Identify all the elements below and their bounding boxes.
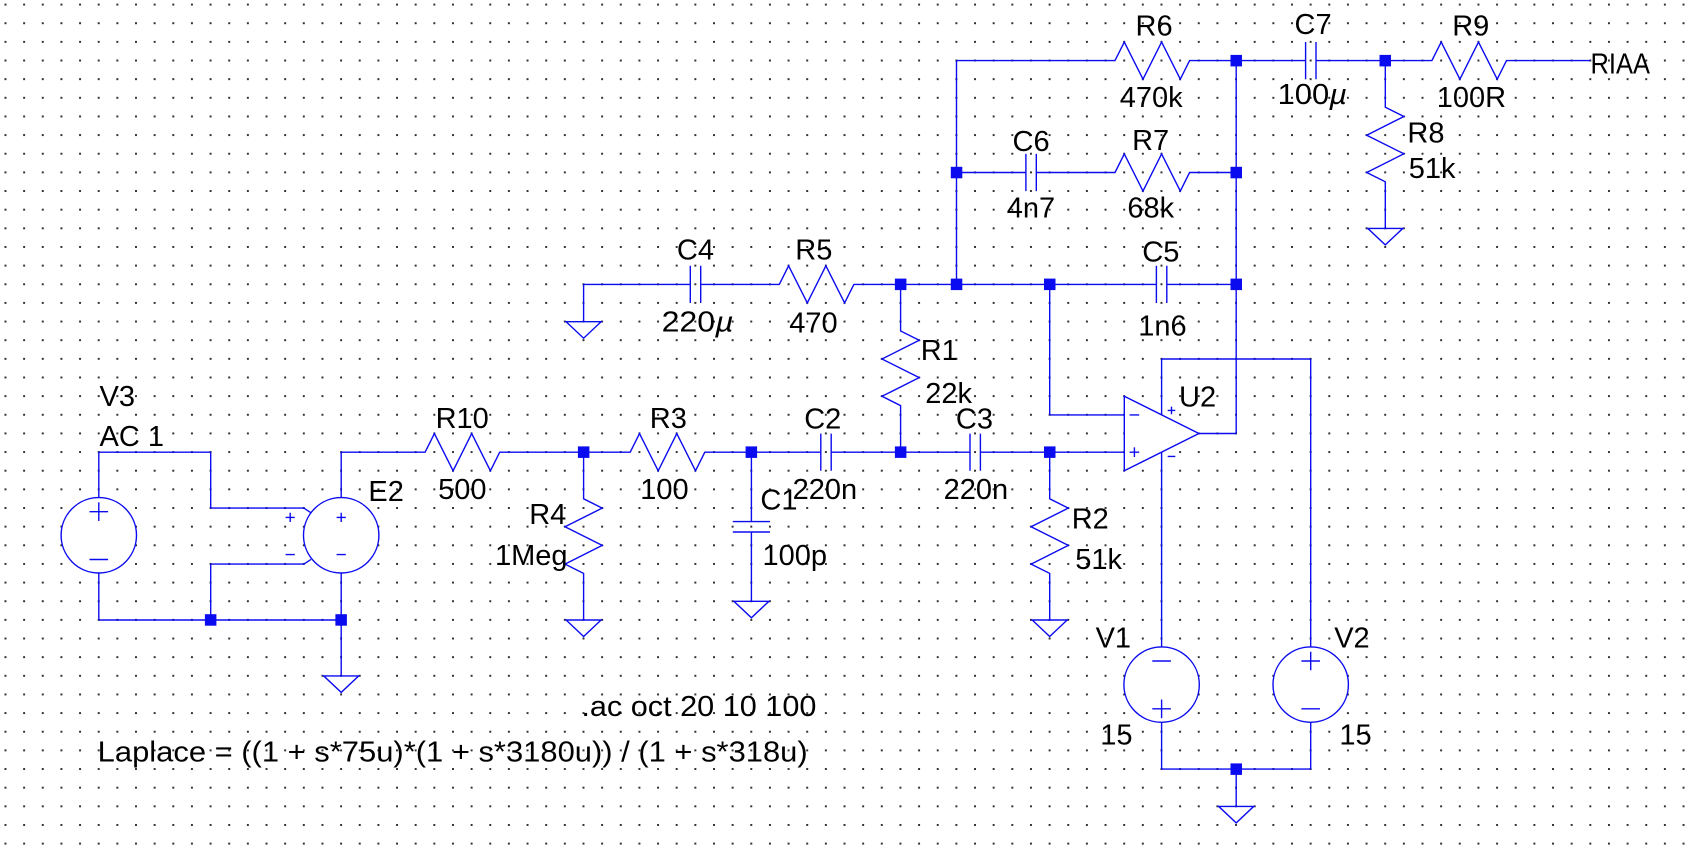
- wire C4 to R5: [733, 283, 770, 285]
- wire gnd corner to C4: [584, 283, 659, 285]
- svg-text:15: 15: [1100, 720, 1132, 752]
- resistor R7: [1106, 154, 1199, 191]
- svg-text:220µ: 220µ: [662, 307, 734, 339]
- svg-text:470k: 470k: [1120, 82, 1183, 114]
- resistor R9: [1423, 42, 1516, 79]
- wire C4 row ground stem: [583, 284, 585, 321]
- wire V+ rail horizontal: [1162, 358, 1311, 360]
- wire minus branch to opamp: [1050, 414, 1125, 416]
- wire V3 bottom: [98, 573, 100, 620]
- wire supply bottom row: [1162, 768, 1311, 770]
- ground R4: [566, 620, 601, 637]
- svg-text:E2: E2: [368, 476, 403, 508]
- svg-text:220n: 220n: [944, 474, 1009, 506]
- wire R6 to feedback node: [1199, 60, 1236, 62]
- capacitor C6: [994, 154, 1069, 191]
- svg-text:R2: R2: [1072, 503, 1109, 535]
- wire node to opamp plus input: [1050, 451, 1125, 453]
- junction left vertical bottom: [951, 279, 963, 291]
- svg-text:500: 500: [438, 474, 486, 506]
- wire V1 bottom: [1161, 722, 1163, 769]
- junction C1 top: [746, 446, 758, 458]
- wire opamp output: [1199, 433, 1236, 435]
- wire E2 to R10: [341, 451, 416, 453]
- svg-text:R7: R7: [1132, 125, 1169, 157]
- wire E2 top: [340, 452, 342, 498]
- wire V+ rail down to V2: [1310, 359, 1312, 647]
- svg-text:RIAA: RIAA: [1591, 48, 1651, 80]
- resistor R5: [770, 266, 863, 303]
- svg-text:R4: R4: [529, 499, 566, 531]
- resistor R3: [621, 434, 714, 471]
- wire R1 bottom lead: [900, 415, 902, 452]
- junction E2 bottom node: [335, 614, 347, 626]
- wire node to C5: [1050, 283, 1125, 285]
- junction bottom-left node: [205, 614, 217, 626]
- svg-text:100µ: 100µ: [1278, 79, 1348, 111]
- junction supply ground: [1231, 763, 1243, 775]
- wire E2 minus control down: [210, 564, 212, 620]
- junction R2 top: [1044, 446, 1056, 458]
- wire E2 bottom: [340, 573, 342, 620]
- svg-text:.ac oct 20 10 100: .ac oct 20 10 100: [581, 691, 816, 723]
- wire minus branch down: [1049, 284, 1051, 415]
- svg-text:1Meg: 1Meg: [495, 540, 568, 572]
- wire R1 top lead: [900, 284, 902, 321]
- wire node to C3: [901, 451, 938, 453]
- wire row1 left: [957, 60, 1106, 62]
- wire R2 top lead: [1049, 452, 1051, 489]
- svg-text:AC 1: AC 1: [100, 421, 164, 453]
- svg-text:470: 470: [789, 308, 837, 340]
- junction minus branch: [1044, 279, 1056, 291]
- wire C3 to node: [1012, 451, 1049, 453]
- voltage source V2: [1273, 647, 1348, 722]
- svg-text:C5: C5: [1142, 237, 1179, 269]
- wire E2 minus control horizontal: [211, 559, 311, 564]
- svg-text:22k: 22k: [925, 378, 972, 410]
- wire R4 top lead: [583, 452, 585, 489]
- resistor R1: [882, 322, 919, 415]
- wire bottom row V3 to E2: [99, 619, 341, 621]
- wire to left vertical node: [901, 283, 957, 285]
- wire V3 top horizontal: [99, 451, 211, 453]
- ground supplies: [1219, 806, 1254, 823]
- wire node to C7: [1236, 60, 1273, 62]
- wire V+ rail up: [1161, 359, 1163, 418]
- svg-text:C2: C2: [804, 404, 841, 436]
- capacitor C3: [938, 434, 1013, 471]
- wire feedback vertical: [1235, 61, 1237, 434]
- wire C1 bottom lead: [750, 564, 752, 601]
- svg-text:R1: R1: [921, 335, 958, 367]
- ground C4 row: [566, 322, 601, 339]
- ground R8: [1368, 228, 1403, 245]
- svg-text:51k: 51k: [1075, 544, 1122, 576]
- svg-text:4n7: 4n7: [1007, 193, 1055, 225]
- capacitor C1: [733, 490, 770, 565]
- wire R3 to node: [714, 451, 751, 453]
- svg-text:51k: 51k: [1409, 153, 1456, 185]
- junction feedback row2: [1231, 167, 1243, 179]
- capacitor C7: [1274, 42, 1349, 79]
- wire R10 to node: [509, 451, 584, 453]
- capacitor C4: [658, 266, 733, 303]
- junction R8 top: [1380, 55, 1392, 67]
- wire node to R3: [584, 451, 621, 453]
- junction R1 bottom: [895, 446, 907, 458]
- wire V- down to V1: [1161, 450, 1163, 647]
- wire E2 plus control horizontal: [211, 508, 311, 513]
- svg-text:U2: U2: [1179, 381, 1216, 413]
- ground R2: [1032, 620, 1067, 637]
- dependent source E2: [304, 498, 379, 573]
- wire row2 left: [957, 172, 994, 174]
- wire left vertical: [956, 61, 958, 285]
- svg-text:R8: R8: [1407, 117, 1444, 149]
- wire E2 to ground: [340, 620, 342, 676]
- svg-text:R5: R5: [795, 235, 832, 267]
- resistor R8: [1367, 98, 1404, 191]
- voltage source V1: [1124, 647, 1199, 722]
- op-amp U2: [1124, 396, 1199, 471]
- resistor R2: [1031, 490, 1068, 583]
- svg-text:R3: R3: [650, 403, 687, 435]
- resistor R10: [416, 434, 509, 471]
- svg-text:68k: 68k: [1127, 193, 1174, 225]
- voltage source V3: [61, 498, 136, 573]
- junction left vertical row2: [951, 167, 963, 179]
- wire node to R9: [1385, 60, 1422, 62]
- svg-text:V2: V2: [1334, 623, 1369, 655]
- wire R8 bottom lead: [1384, 191, 1386, 228]
- svg-text:V3: V3: [100, 381, 135, 413]
- svg-text:1n6: 1n6: [1138, 311, 1186, 343]
- wire V2 bottom: [1310, 722, 1312, 769]
- svg-text:C4: C4: [677, 235, 714, 267]
- ground E2: [324, 676, 359, 693]
- junction R4 top: [578, 446, 590, 458]
- svg-text:R10: R10: [436, 403, 489, 435]
- wire supply ground stem: [1235, 769, 1237, 806]
- ground C1: [734, 601, 769, 618]
- svg-text:15: 15: [1339, 720, 1371, 752]
- resistor R6: [1106, 42, 1199, 79]
- wire C7 to R8 node: [1348, 60, 1385, 62]
- wire to minus node: [957, 283, 1050, 285]
- wire V3 top to main row: [98, 452, 100, 498]
- capacitor C5: [1124, 266, 1199, 303]
- wire R2 bottom lead: [1049, 583, 1051, 620]
- resistor R4: [565, 490, 602, 583]
- svg-text:C6: C6: [1013, 126, 1050, 158]
- junction feedback row3: [1231, 279, 1243, 291]
- svg-text:C7: C7: [1295, 9, 1332, 41]
- svg-text:Laplace = ((1 + s*75u)*(1 + s*: Laplace = ((1 + s*75u)*(1 + s*3180u)) / …: [98, 737, 808, 769]
- wire R4 bottom lead: [583, 583, 585, 620]
- wire down to E2 plus control: [210, 452, 212, 508]
- wire node to C2: [751, 451, 788, 453]
- wire R9 to RIAA: [1516, 60, 1591, 62]
- svg-text:220n: 220n: [793, 474, 858, 506]
- svg-text:R9: R9: [1452, 11, 1489, 43]
- svg-text:R6: R6: [1136, 11, 1173, 43]
- junction feedback row1: [1231, 55, 1243, 67]
- wire C2 to node: [863, 451, 900, 453]
- wire C5 to feedback node: [1199, 283, 1236, 285]
- wire C1 top lead: [750, 452, 752, 489]
- wire C6 to R7: [1068, 172, 1105, 174]
- capacitor C2: [789, 434, 864, 471]
- wire R7 to feedback: [1199, 172, 1236, 174]
- svg-text:V1: V1: [1096, 623, 1131, 655]
- junction R1 top: [895, 279, 907, 291]
- svg-text:100R: 100R: [1437, 82, 1506, 114]
- wire R8 top lead: [1384, 61, 1386, 98]
- svg-text:100: 100: [640, 474, 688, 506]
- wire R5 to R1 node: [863, 283, 900, 285]
- svg-text:100p: 100p: [763, 540, 828, 572]
